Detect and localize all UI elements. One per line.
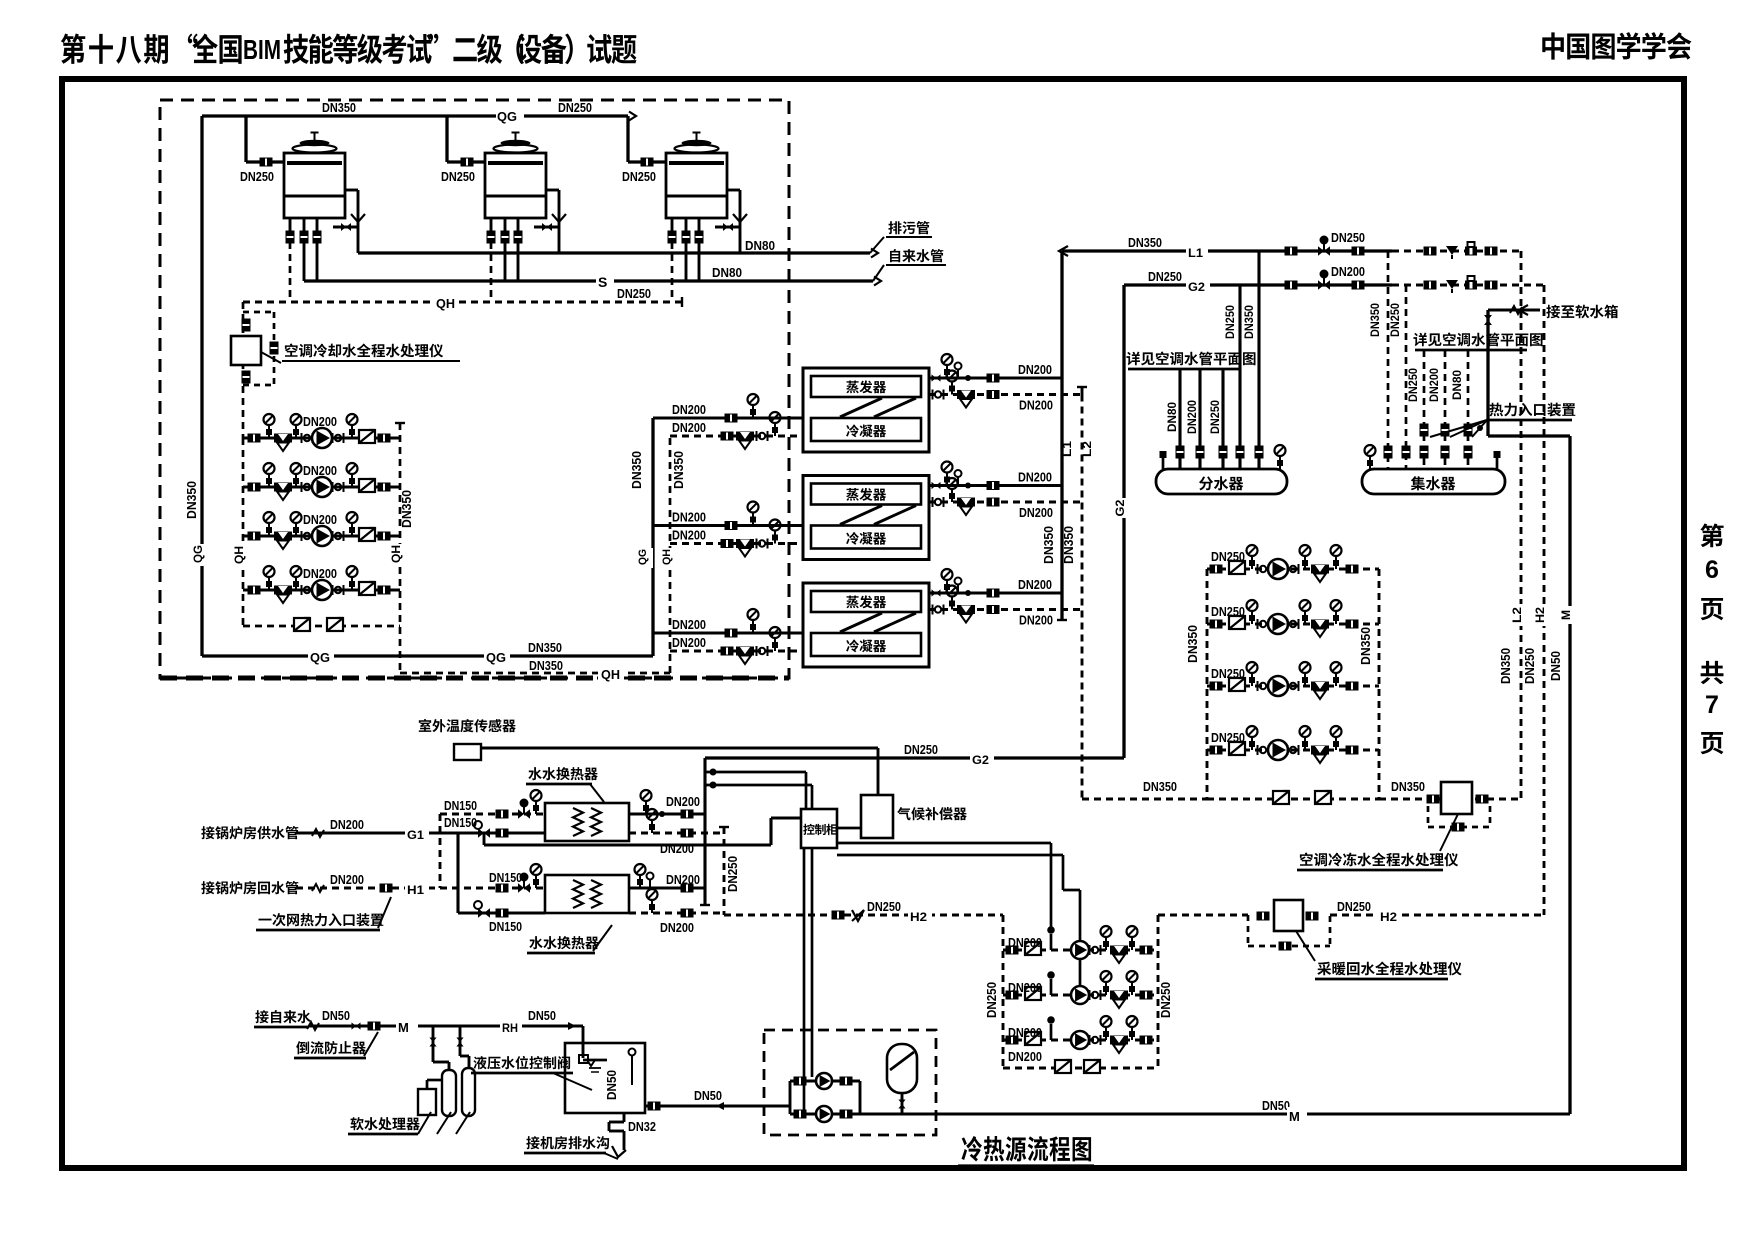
pump (312, 428, 332, 448)
pressure gauge (946, 580, 948, 593)
valve (496, 810, 509, 819)
strainer (274, 586, 292, 595)
control cabinet 控制柜 (801, 809, 837, 848)
valve (725, 414, 738, 423)
wire chilled pump branch DN250 (1207, 749, 1379, 752)
pump (1268, 740, 1288, 760)
valve tower outlet (682, 231, 691, 244)
svg-text:DN80: DN80 (1450, 370, 1464, 400)
svg-text:DN350: DN350 (1128, 235, 1162, 250)
wire tower feed riser (445, 116, 448, 162)
junction (1477, 425, 1483, 431)
svg-text:DN200: DN200 (1018, 470, 1052, 485)
wire evaporator out DN200 (929, 376, 1062, 379)
pump (816, 1106, 832, 1122)
wire to chilled treatment (1379, 798, 1521, 801)
expansion tank (887, 1044, 917, 1093)
pipe cap (719, 826, 729, 828)
svg-text:DN200: DN200 (666, 794, 700, 809)
pressure gauge (268, 425, 270, 438)
valve (1306, 912, 1319, 921)
svg-text:H2: H2 (910, 910, 927, 924)
leader 自来水管 (873, 265, 884, 281)
wire QH tower return DN250 (243, 301, 682, 304)
pump (312, 526, 332, 546)
wire evaporator out DN200 (929, 591, 1062, 594)
tower fan (494, 145, 538, 153)
pressure gauge (1251, 673, 1253, 686)
wire cooling pump suction manifold QH (242, 438, 245, 626)
wire tower outlet 3 (517, 218, 520, 232)
outdoor temperature sensor (454, 744, 481, 760)
cooling tower (284, 153, 345, 218)
wire tower outlet to S (517, 242, 520, 281)
wire DN250 H2 riser (723, 827, 726, 915)
svg-text:DN250: DN250 (1211, 604, 1245, 619)
svg-text:DN200: DN200 (330, 817, 364, 832)
valve blowdown (723, 223, 728, 231)
cabinet control wires to hot pumps (837, 842, 1051, 845)
svg-text:DN200: DN200 (1008, 1049, 1042, 1064)
wire tower outlet 1 (490, 218, 493, 232)
leader line (261, 352, 281, 363)
valve discharge (1140, 946, 1153, 955)
wire H2 right riser (1543, 285, 1546, 915)
cabinet wires to pressurization pumps (803, 848, 806, 1110)
svg-text:DN200: DN200 (1019, 613, 1053, 628)
valve (1285, 281, 1298, 290)
wire tower outlet 2 (685, 218, 688, 232)
svg-text:DN150: DN150 (444, 798, 477, 813)
wire distributor riser (1198, 368, 1201, 469)
flexible joint (1287, 745, 1289, 755)
pressure gauge (1131, 982, 1133, 995)
cooling tower (485, 153, 546, 218)
svg-text:QH: QH (232, 546, 246, 564)
pressure gauge (295, 425, 297, 438)
label 接自来水 (255, 1010, 268, 1023)
pump (1071, 986, 1089, 1004)
wire H2 to riser (1330, 914, 1544, 917)
pressure gauge (1304, 737, 1306, 750)
check valve (359, 430, 375, 443)
wire tower overflow (727, 189, 740, 192)
wire HX1 secondary return DN200 (629, 832, 724, 835)
label 空调冷却水全程水处理仪 (285, 344, 298, 357)
wire G2 left riser (1122, 285, 1125, 758)
svg-text:G1: G1 (407, 828, 424, 842)
wire L1 chiller supply header (1060, 251, 1063, 620)
wire condenser in DN200 (653, 416, 803, 419)
pipe break (312, 829, 324, 837)
chiller internal diagonals (840, 613, 882, 632)
wire G2 DN250 (1124, 283, 1392, 286)
svg-text:DN250: DN250 (1337, 899, 1371, 914)
chiller internal diagonals (840, 506, 882, 525)
valve discharge (1346, 746, 1359, 755)
pump riser (1050, 979, 1053, 995)
svg-text:DN250: DN250 (1211, 666, 1245, 681)
strainer (1110, 991, 1128, 1000)
pressure gauge (639, 875, 641, 888)
flexible joint (1089, 990, 1091, 1000)
svg-text:DN350: DN350 (528, 640, 562, 655)
label 详见空调水管平面图 (1413, 333, 1426, 347)
svg-text:DN200: DN200 (1008, 980, 1042, 995)
valve tower outlet (313, 231, 322, 244)
pressure gauge (752, 513, 754, 526)
wire tower drain to QH (671, 242, 674, 302)
valve H1 (380, 884, 393, 893)
wire QG left riser (200, 116, 203, 656)
chiller unit CH2 (803, 476, 929, 560)
pressure gauge (1304, 673, 1306, 686)
thermometer (957, 477, 959, 486)
backflow preventer (368, 1022, 381, 1031)
thermometer (957, 584, 959, 593)
svg-text:DN350: DN350 (1358, 627, 1373, 665)
svg-text:DN80: DN80 (1165, 402, 1179, 432)
valve (932, 374, 937, 381)
flexible joint (932, 605, 934, 615)
valve tank outlet (648, 1102, 661, 1111)
hx coils (573, 880, 583, 908)
climate compensator 气候补偿器 (861, 795, 893, 838)
svg-text:DN250: DN250 (1406, 368, 1420, 402)
pressure gauge (774, 638, 776, 651)
wire QH main DN350 (400, 672, 670, 675)
valve riser (1441, 446, 1450, 459)
wire tower inlet stub (246, 160, 284, 163)
wire QG main DN350 (202, 654, 653, 657)
wire tower outlet 2 (303, 218, 306, 232)
pipe cap (700, 904, 710, 906)
label 热力入口装置 (1489, 403, 1503, 417)
valve riser (1464, 446, 1473, 459)
svg-text:DN200: DN200 (303, 463, 337, 478)
svg-text:DN200: DN200 (1008, 1025, 1042, 1040)
pressure gauge (1105, 1027, 1107, 1040)
valve (721, 647, 734, 656)
valve (840, 1077, 853, 1086)
valve treatment outlet (242, 371, 251, 384)
svg-text:DN250: DN250 (1211, 730, 1245, 745)
softener branch 2 (459, 1026, 462, 1048)
svg-text:DN200: DN200 (660, 841, 694, 856)
wire QG tower supply header DN350 (202, 114, 628, 117)
valve suction (1006, 946, 1019, 955)
valve (1485, 247, 1498, 256)
reducer (1446, 280, 1458, 289)
svg-text:H1: H1 (407, 883, 424, 897)
pump riser (1050, 1024, 1053, 1040)
flexible joint (932, 497, 934, 507)
pressure gauge (752, 620, 754, 633)
pump (1071, 941, 1089, 959)
label 接锅炉房供水管 (201, 826, 214, 839)
wire L1 dashed section (1392, 250, 1521, 253)
wire distributor riser DN250 (1238, 285, 1241, 469)
svg-text:QH: QH (389, 545, 403, 563)
pressure gauge (946, 473, 948, 486)
water tank (565, 1043, 645, 1113)
label 详见空调水管平面图 (1126, 352, 1139, 366)
flexible joint (332, 531, 334, 541)
svg-text:DN200: DN200 (660, 920, 694, 935)
valve DN250 tower inlet (641, 158, 654, 167)
flexible joint (301, 531, 303, 541)
strainer (1311, 565, 1329, 574)
wire H1 DN200 (296, 887, 440, 890)
pressure gauge (1335, 673, 1337, 686)
softener cylinder 1 (442, 1070, 456, 1116)
wire G1 manifold (456, 833, 459, 913)
wire pump branch DN200 (243, 436, 400, 439)
pressure pump row B (790, 1113, 860, 1116)
check valve (327, 618, 343, 631)
svg-text:DN250: DN250 (617, 286, 651, 301)
wire tower outlet 1 (671, 218, 674, 232)
svg-text:DN200: DN200 (1427, 368, 1441, 402)
svg-text:DN350: DN350 (529, 658, 563, 673)
wire tower blowdown stub (715, 226, 740, 229)
wire collector riser (1423, 350, 1426, 469)
check symbol (852, 910, 864, 921)
wire collector riser (1387, 251, 1390, 469)
svg-text:DN200: DN200 (1185, 400, 1199, 434)
valve treatment inlet (242, 319, 251, 332)
svg-text:DN250: DN250 (1388, 303, 1402, 337)
svg-text:DN250: DN250 (1223, 305, 1237, 339)
valve tower outlet (695, 231, 704, 244)
hx coils (573, 808, 583, 836)
pump (1268, 676, 1288, 696)
svg-text:DN200: DN200 (1019, 398, 1053, 413)
thermometer (957, 369, 959, 378)
cooling plant dashed enclosure (160, 100, 789, 678)
wire DN80 blowdown main (358, 251, 870, 254)
valve heat entry (1464, 424, 1473, 437)
svg-text:DN200: DN200 (672, 617, 706, 632)
control valve (518, 809, 524, 819)
valve tower outlet (514, 231, 523, 244)
label 水水换热器 (528, 767, 541, 780)
svg-text:DN250: DN250 (1158, 982, 1173, 1018)
svg-text:DN350: DN350 (1498, 648, 1513, 684)
pressure gauge (295, 523, 297, 536)
wire HX1 secondary out DN200 (629, 812, 705, 815)
tower fan (675, 145, 719, 153)
valve tower outlet (668, 231, 677, 244)
junction (710, 782, 717, 789)
label 接锅炉房回水管 (201, 881, 214, 894)
svg-text:M: M (398, 1020, 409, 1035)
valve (1424, 247, 1437, 256)
wire DN50 makeup main (860, 1112, 1570, 1115)
svg-text:M: M (1559, 610, 1573, 620)
valve (496, 884, 509, 893)
L1 start arrow (1059, 246, 1068, 256)
pressure gauge (295, 577, 297, 590)
valve (725, 521, 738, 530)
leader lines 热力入口装置 (1430, 420, 1487, 437)
wire RH down into tank (582, 1026, 585, 1058)
svg-text:DN200: DN200 (672, 635, 706, 650)
agency title (1542, 32, 1564, 59)
check valve (1084, 1060, 1100, 1073)
pressure gauge (535, 875, 537, 888)
treatment dashed loop (1427, 806, 1430, 827)
valve riser (1176, 446, 1185, 459)
wire HX2 primary in DN150 (440, 887, 545, 890)
valve discharge (1346, 565, 1359, 574)
drain elbow (612, 1146, 626, 1157)
valve treatment bypass (270, 342, 279, 355)
pressure gauge (752, 405, 754, 418)
chiller internal diagonals (840, 398, 882, 417)
valve riser (1384, 446, 1393, 459)
svg-text:DN350: DN350 (1143, 779, 1177, 794)
svg-text:DN200: DN200 (666, 872, 700, 887)
wire S drain main (304, 279, 873, 282)
pressure gauge (351, 523, 353, 536)
svg-text:DN250: DN250 (904, 742, 938, 757)
pressure gauge (951, 597, 953, 610)
valve suction (1210, 620, 1223, 629)
wire tower inlet stub (628, 160, 666, 163)
pressure gauge (1335, 737, 1337, 750)
enclosure bold bottom edge (160, 676, 789, 681)
wire tower drain to QH (490, 242, 493, 302)
pressure gauge (774, 423, 776, 436)
svg-text:DN150: DN150 (489, 919, 522, 934)
flexible joint (1287, 564, 1289, 574)
flexible joint (1287, 619, 1289, 629)
wire QG chiller riser (651, 418, 654, 656)
pressure gauge (1335, 611, 1337, 624)
strainer (1311, 746, 1329, 755)
pressure gauge (268, 474, 270, 487)
wire L2 chiller return header (1081, 395, 1084, 800)
valve (1427, 795, 1440, 804)
wire evaporator in DN200 (929, 393, 1082, 396)
valve DN250 tower inlet (260, 158, 273, 167)
wire HX1 primary out (458, 831, 545, 834)
junction (1047, 1016, 1055, 1024)
valve tower outlet (300, 231, 309, 244)
leader (593, 925, 612, 951)
pipe break (307, 1022, 319, 1030)
valve expansion tank (898, 1100, 905, 1105)
pump riser (1050, 934, 1053, 950)
pressure gauge (951, 382, 953, 395)
valve (1352, 247, 1365, 256)
flexible joint (756, 539, 758, 549)
pipe cap (1057, 619, 1067, 621)
wire chilled pump branch DN250 (1207, 685, 1379, 688)
strainer (736, 647, 754, 656)
pressure gauge (1251, 611, 1253, 624)
valve (932, 589, 937, 596)
tower overflow funnel (351, 214, 365, 222)
check valve (1229, 616, 1245, 629)
wire collector riser (1405, 285, 1408, 469)
control valve (1318, 280, 1324, 290)
pressure gauge (1304, 556, 1306, 569)
wire tower outlet 3 (698, 218, 701, 232)
pressure gauge (951, 489, 953, 502)
check valve (1025, 987, 1041, 1000)
wire tower feed riser (626, 116, 629, 162)
wire G2 DN250 low (705, 756, 1124, 759)
svg-text:DN200: DN200 (1018, 577, 1052, 592)
svg-text:G2: G2 (972, 753, 989, 767)
wire hot bypass DN200 (1003, 1067, 1158, 1070)
svg-text:DN250: DN250 (558, 100, 592, 115)
wire hot pump branch DN200 (1003, 994, 1158, 997)
condenser CH1 (811, 418, 921, 441)
label 室外温度传感器 (419, 719, 431, 732)
wire G2 dashed section (1392, 284, 1544, 287)
valve suction (1006, 991, 1019, 1000)
softener cylinder 2 (462, 1068, 475, 1116)
strainer (957, 498, 975, 507)
svg-text:DN200: DN200 (303, 512, 337, 527)
wire tower drain to QH (289, 242, 292, 302)
svg-text:QG: QG (497, 109, 517, 124)
flexible joint (1257, 619, 1259, 629)
valve discharge (378, 532, 391, 541)
label 液压水位控制阀 (473, 1056, 486, 1069)
diagram title 冷热源流程图 (961, 1136, 982, 1162)
wire condenser out DN200 (670, 542, 803, 545)
svg-text:DN50: DN50 (694, 1088, 722, 1103)
svg-text:DN50: DN50 (1548, 651, 1563, 681)
flexible joint (1257, 564, 1259, 574)
pressure gauge (351, 577, 353, 590)
pressure gauge (351, 474, 353, 487)
arrow (1519, 305, 1528, 315)
valve suction (1006, 1036, 1019, 1045)
svg-text:DN200: DN200 (303, 566, 337, 581)
valve (721, 539, 734, 548)
wire tower overflow (345, 189, 358, 192)
pressure gauge (535, 801, 537, 814)
wire tower outlet to S (685, 242, 688, 281)
valve (681, 810, 694, 819)
valve (456, 1038, 463, 1043)
wire tower feed riser (244, 116, 247, 162)
leader (378, 897, 391, 928)
junction (965, 375, 971, 381)
svg-text:DN350: DN350 (1061, 526, 1076, 564)
svg-text:DN200: DN200 (1019, 505, 1053, 520)
pressure gauge (268, 577, 270, 590)
flexible joint (1089, 1035, 1091, 1045)
valve (496, 829, 509, 838)
svg-text:DN250: DN250 (725, 856, 740, 892)
wire tap water DN50 (309, 1024, 583, 1027)
softener box (418, 1089, 436, 1115)
wire QH down to pump manifold (242, 302, 245, 438)
evaporator CH2 (811, 484, 921, 505)
pump (1268, 559, 1288, 579)
valve (987, 481, 1000, 490)
check valve (359, 479, 375, 492)
pump (1268, 614, 1288, 634)
svg-text:DN350: DN350 (184, 481, 199, 519)
valve (1257, 912, 1270, 921)
